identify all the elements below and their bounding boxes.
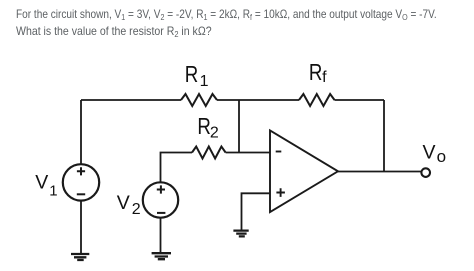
wire R2 to inverting input	[226, 152, 270, 154]
V2 minus sign	[157, 212, 165, 214]
svg-text:2: 2	[210, 125, 219, 142]
svg-text:1: 1	[49, 182, 57, 199]
wire top-left horizontal from V1 branch to R1	[81, 99, 181, 101]
label R1	[185, 61, 209, 90]
resistor Rf	[299, 94, 335, 106]
wire Rf to right corner	[335, 99, 385, 101]
label Rf	[309, 59, 327, 86]
ground (V1)	[71, 254, 89, 260]
svg-text:f: f	[322, 69, 327, 86]
label Vo	[423, 142, 447, 167]
resistor R1	[181, 94, 217, 106]
label V1	[35, 172, 57, 200]
V2 plus sign	[157, 185, 165, 193]
label V2	[117, 192, 141, 218]
svg-text:R: R	[185, 61, 199, 87]
svg-text:R: R	[197, 113, 211, 139]
node inverting junction vertical wire	[238, 100, 240, 153]
voltage source V2	[143, 182, 178, 217]
output terminal	[421, 168, 430, 177]
ground (noninverting)	[233, 231, 248, 237]
V1 minus sign	[77, 193, 85, 195]
wire R1 to Rf	[217, 99, 299, 101]
ground (V2)	[152, 253, 171, 259]
svg-text:V: V	[423, 142, 436, 164]
wire right vertical feedback	[383, 100, 385, 172]
label R2	[197, 113, 219, 141]
wire V2 to ground	[160, 218, 162, 254]
wire V1 to ground	[80, 201, 82, 254]
wire noninverting input to ground	[242, 193, 271, 230]
question text line 1	[16, 9, 437, 24]
svg-text:V: V	[35, 172, 48, 194]
svg-text:V: V	[117, 192, 130, 214]
svg-text:R: R	[309, 59, 323, 85]
svg-text:o: o	[437, 147, 446, 166]
V1 plus sign	[77, 167, 85, 175]
wire V2 up and to R2	[161, 153, 193, 183]
wire vertical down to V1	[80, 100, 82, 164]
op-amp minus sign	[276, 151, 282, 153]
op-amp plus sign	[276, 188, 285, 197]
svg-text:2: 2	[132, 201, 141, 218]
question text line 2	[16, 26, 212, 41]
op-amp U1	[270, 130, 338, 212]
svg-text:1: 1	[200, 73, 209, 90]
voltage source V1	[63, 164, 99, 200]
resistor R2	[192, 147, 226, 159]
wire output	[338, 171, 422, 173]
